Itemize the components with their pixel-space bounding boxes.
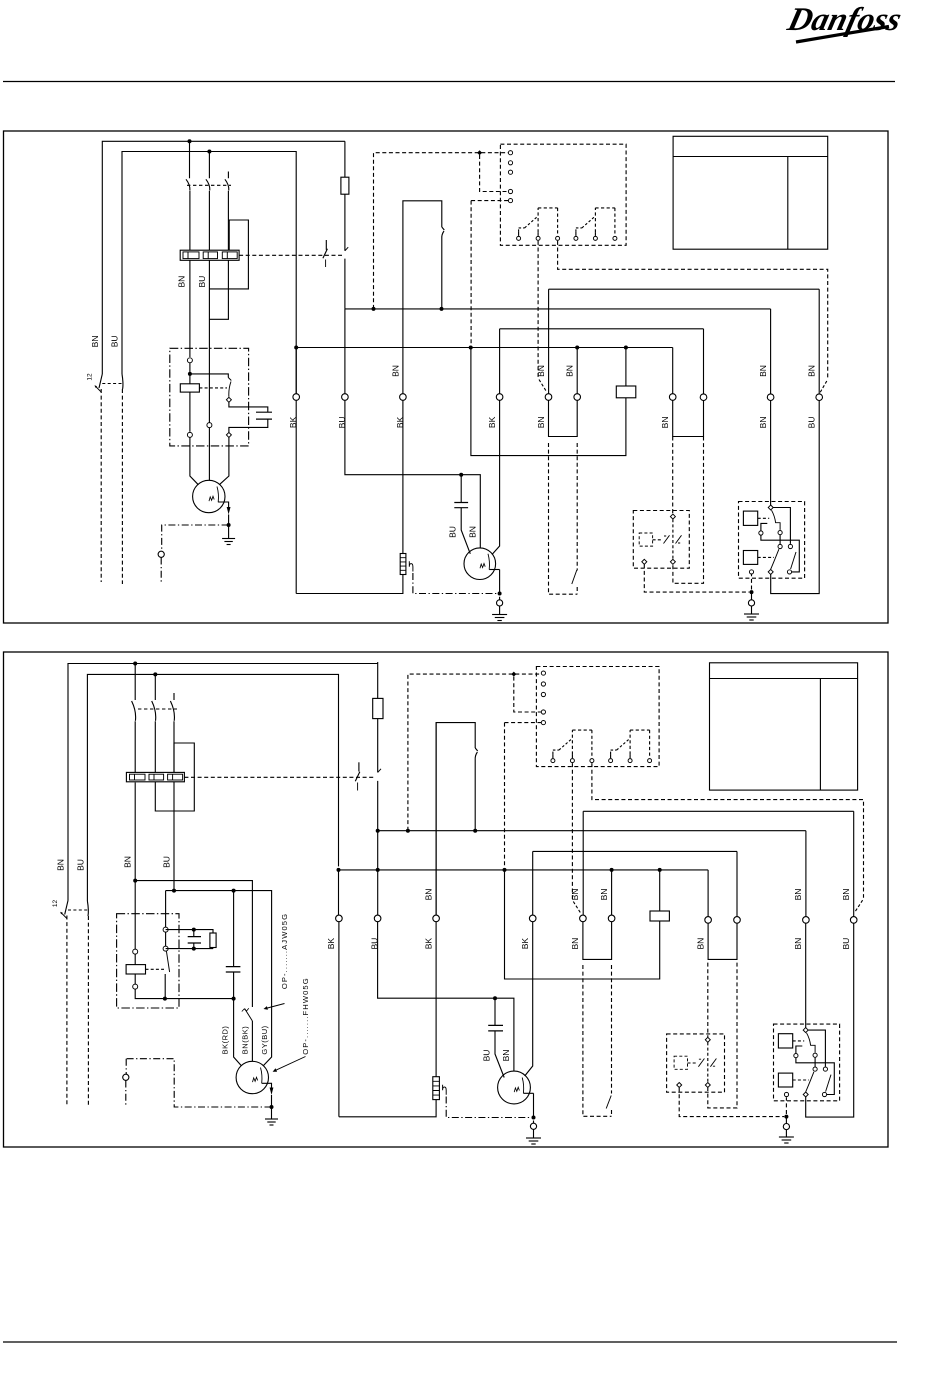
label BU terminal	[337, 416, 347, 428]
dashed ground to relay	[751, 575, 753, 590]
svg-text:BN: BN	[122, 856, 132, 868]
svg-text:BN: BN	[536, 365, 546, 377]
label BU left	[110, 335, 120, 347]
wire M2 to ground node	[499, 570, 501, 594]
wire M3 ground link	[533, 1121, 535, 1139]
motor M1	[193, 480, 225, 512]
header rule	[3, 81, 895, 83]
timer contact group1	[517, 208, 560, 241]
dashed defrost BN drop b	[572, 763, 581, 913]
svg-text:BK: BK	[423, 938, 433, 950]
wire fan pair U b	[708, 923, 737, 959]
terminal BN d2 b	[608, 915, 615, 922]
start relay box b	[117, 914, 179, 1008]
dashed defrost tail1 b	[583, 965, 612, 1116]
Danfoss logo	[783, 1, 905, 42]
overload F1b element3	[168, 774, 183, 780]
terminal BN aux	[816, 394, 823, 401]
terminal aux switch mid	[163, 946, 168, 951]
wire BU in box	[208, 421, 210, 424]
wire M3 to ground node	[533, 1093, 535, 1117]
wire BU below overload	[208, 260, 210, 422]
aux switch blade b	[166, 951, 169, 972]
node cap rail b	[232, 997, 236, 1001]
wire comp feed drop b	[805, 831, 807, 917]
wire resistor up b	[659, 870, 661, 911]
wire N top (BU)	[122, 152, 296, 394]
svg-text:BN: BN	[501, 1050, 511, 1062]
motor M1 arrow	[218, 502, 230, 515]
dash-dot heater to motor M2 ground	[413, 573, 498, 594]
node M1 ground	[227, 523, 231, 527]
bus B horizontal	[296, 347, 673, 349]
node busB2 defrost	[610, 868, 614, 872]
motor M3	[498, 1071, 531, 1104]
wire resistor up	[625, 348, 627, 387]
pressostat wire b	[436, 723, 475, 922]
timer contact group2	[574, 208, 617, 241]
dashed aux to ground b	[679, 1088, 784, 1117]
node bus B feed	[469, 346, 473, 350]
wire BN to coil	[189, 363, 191, 384]
timer pin1 b	[541, 671, 545, 675]
label BN d2 top	[565, 365, 575, 377]
aux terminal top	[670, 514, 675, 519]
svg-text:BN: BN	[841, 889, 851, 901]
node bus A pressostat	[440, 307, 444, 311]
OP switch blade	[242, 1008, 253, 1021]
label BU M3	[481, 1050, 491, 1062]
wire coil down	[189, 392, 191, 432]
footer rule	[3, 1341, 897, 1343]
svg-text:BN: BN	[565, 365, 575, 377]
wire resistor loop b	[505, 870, 660, 979]
wire between terminals b	[165, 932, 167, 946]
label BN pressostat b	[423, 889, 433, 901]
overload F1b body	[126, 772, 184, 781]
node bus B defrost	[575, 346, 579, 350]
wire aux switch drop	[165, 891, 167, 928]
timer pin4 b	[541, 710, 545, 714]
node L1b contactor	[133, 662, 137, 666]
wire C2b top	[494, 998, 496, 1025]
timer contact group1 b	[551, 730, 594, 763]
svg-text:12: 12	[52, 900, 59, 908]
wire M2 ground link	[499, 597, 501, 615]
node busA2 pressostat	[473, 829, 477, 833]
wire fuse drop b	[377, 662, 379, 698]
label BN aux top	[806, 365, 816, 377]
terminal BN comp	[767, 394, 774, 401]
node wire N to bus	[294, 346, 298, 350]
contactor K1 pole3	[225, 172, 229, 251]
timer pin3	[508, 170, 512, 174]
wire fan pair2 up b	[736, 851, 738, 916]
diagram 2 frame	[4, 652, 889, 1147]
wire to start capacitor	[229, 402, 268, 412]
wire fan line	[500, 328, 704, 330]
node comp ground	[750, 590, 754, 594]
compressor relay box b	[774, 1024, 840, 1101]
svg-text:BU: BU	[841, 938, 851, 950]
dashed pin5 drop	[471, 201, 508, 345]
timer pin1	[508, 151, 512, 155]
dashed defrost tail2 b	[611, 965, 613, 1116]
start switch blade	[228, 378, 231, 397]
svg-text:BN: BN	[806, 365, 816, 377]
timer relay box	[500, 144, 626, 245]
switch link dashed b	[68, 909, 87, 911]
node L1/contactor junction	[188, 139, 192, 143]
wire blade to rail b	[164, 974, 166, 999]
label BN d1 top b	[570, 889, 580, 901]
pressostat wire lower	[441, 239, 443, 309]
label BK1 b	[326, 938, 336, 950]
svg-text:BN: BN	[391, 365, 401, 377]
wire fan pair2 up	[703, 329, 705, 394]
svg-text:BN: BN	[570, 938, 580, 950]
compressor relay interior	[743, 505, 799, 574]
label BK fan	[487, 416, 497, 428]
wire defrost line b	[583, 810, 854, 812]
wire BN rail b	[135, 881, 252, 1007]
label BU left b	[76, 859, 86, 871]
run capacitor C2	[454, 503, 468, 508]
contactor K1b pole3	[170, 693, 174, 772]
label BN d1 top	[536, 365, 546, 377]
wire aux BN drop	[818, 289, 820, 394]
wire resistor loop	[471, 348, 626, 456]
label BN fan pair b	[695, 938, 705, 950]
svg-text:BU: BU	[481, 1050, 491, 1062]
aux terminal br	[670, 559, 675, 564]
aux relay interior	[639, 519, 682, 559]
ground M1b	[265, 1107, 278, 1125]
svg-text:BU: BU	[76, 859, 86, 871]
terminal fan pair1	[669, 394, 676, 401]
resistor R2	[616, 386, 636, 398]
start relay coil K2	[180, 384, 199, 392]
svg-text:BN: BN	[758, 365, 768, 377]
wire heater top b	[435, 922, 437, 1077]
timer pin3 b	[541, 692, 545, 696]
label BN d1 bottom b	[570, 938, 580, 950]
svg-text:BN: BN	[536, 416, 546, 428]
node feed diamond b	[511, 672, 516, 677]
compressor relay interior b	[778, 1028, 834, 1097]
ground M3	[526, 1138, 541, 1144]
svg-text:BN(BK): BN(BK)	[241, 1026, 250, 1054]
timer pin2	[508, 161, 512, 165]
svg-text:OP-.......FHW05G: OP-.......FHW05G	[301, 977, 310, 1055]
wire defrost left drop b	[582, 811, 584, 915]
svg-text:BK: BK	[520, 938, 530, 950]
wire fan to motor M2	[492, 400, 500, 554]
node feed diamond	[477, 150, 482, 155]
node Nb contactor	[153, 672, 157, 676]
pressostat blade	[442, 227, 445, 239]
node bus A dashed feed	[372, 307, 376, 311]
terminal fan pair1 b	[705, 917, 712, 924]
label BN M3	[501, 1050, 511, 1062]
label BN(BK)	[241, 1026, 250, 1054]
start resistor R3	[210, 933, 216, 948]
node BU bus b	[376, 868, 380, 872]
aux terminal top b	[705, 1037, 710, 1042]
label BU aux bottom b	[841, 938, 851, 950]
overload trip dashed b	[184, 776, 374, 778]
wire aux BN drop b	[853, 811, 855, 916]
contactor K1b pole2	[152, 674, 156, 772]
node busA2 start	[376, 829, 380, 833]
wire C4 bottom	[233, 972, 235, 999]
terminal comp ground b	[783, 1124, 789, 1130]
compressor relay box	[739, 502, 805, 579]
overload F1b element1	[130, 774, 146, 780]
label BN pressostat	[391, 365, 401, 377]
wire d2 up	[576, 348, 578, 394]
terminal BN box top	[187, 358, 192, 363]
wire coil down b	[134, 974, 136, 984]
wire M1b to ground node	[271, 1095, 273, 1107]
label BN comp top	[758, 365, 768, 377]
dashed ground to relay b	[785, 1097, 787, 1114]
overload F1 element2	[203, 252, 217, 259]
terminal coil bottom	[187, 432, 192, 437]
start relay box	[170, 348, 249, 446]
dash-dot service drop b	[125, 1059, 127, 1075]
node bus B resistor	[624, 346, 628, 350]
label BK(RD)	[220, 1026, 229, 1055]
timer pin2 b	[541, 682, 545, 686]
node run capacitor tap	[459, 473, 463, 477]
wire comp ground link	[751, 592, 753, 614]
terminal start branch bottom	[226, 432, 231, 437]
wire BU rail b	[166, 891, 272, 1066]
wire BN in box b	[134, 783, 136, 950]
svg-text:BN: BN	[660, 416, 670, 428]
timer relay box b	[536, 667, 659, 767]
label BU contactor b	[162, 856, 172, 868]
wire C2 top	[460, 475, 462, 503]
label BN M2	[467, 526, 477, 538]
terminal BK heater b	[433, 915, 440, 922]
label OP-FHW05G	[301, 977, 310, 1055]
wire M1 to ground node	[228, 515, 230, 526]
terminal BN comp b	[803, 917, 810, 924]
terminal BN d2	[574, 394, 581, 401]
label BN left	[90, 335, 100, 347]
svg-text:BN: BN	[423, 889, 433, 901]
dash-dot M1 service	[162, 525, 229, 551]
dashed defrost feed long b	[592, 763, 864, 912]
svg-text:12: 12	[87, 373, 94, 381]
contactor K1b linkage	[138, 708, 177, 710]
svg-text:BU: BU	[448, 526, 458, 538]
dash-dot heater to M3 ground	[446, 1097, 531, 1118]
svg-text:BK: BK	[487, 416, 497, 428]
motor M1b arrow	[262, 1083, 274, 1095]
node RC cap bottom	[192, 947, 196, 951]
wire rail to M1b left	[234, 999, 242, 1066]
node cap rail tap	[232, 889, 236, 893]
RC bottom rail	[166, 948, 213, 949]
terminal coil bottom b	[133, 984, 138, 989]
fuse F2b	[373, 698, 383, 718]
wire fan left drop	[499, 329, 501, 394]
wire C4 top	[233, 891, 235, 967]
label BN aux top b	[841, 889, 851, 901]
node Nb bus	[337, 868, 341, 872]
wire d-pair U b	[583, 922, 612, 960]
wire BU dashed cont b	[87, 916, 89, 1106]
wire box left to M1	[190, 437, 199, 484]
label BK fan b	[520, 938, 530, 950]
bus B2 horizontal	[339, 869, 709, 871]
svg-text:BU: BU	[162, 856, 172, 868]
arrow 12 annotation b	[52, 900, 67, 919]
node BU rail tap	[172, 889, 176, 893]
legend table 1	[673, 136, 828, 249]
terminal BU	[342, 394, 349, 401]
terminal BN d1	[545, 394, 552, 401]
label BN left b	[56, 859, 66, 871]
motor M2	[464, 548, 496, 580]
label BU aux bottom	[806, 416, 816, 428]
terminal BK fan	[496, 394, 503, 401]
coil link dashed	[199, 387, 227, 389]
arrow OP-AJW05G	[264, 1004, 285, 1010]
label BN d2 top b	[599, 889, 609, 901]
wire BN to coil b	[134, 954, 136, 965]
motor M1b	[236, 1061, 268, 1093]
terminal comp ground	[748, 600, 754, 606]
overload trip dashed	[239, 254, 342, 256]
ground comp	[744, 614, 759, 620]
node busB2 feed	[503, 868, 507, 872]
wire fan pair U	[673, 400, 704, 436]
wire bottom U heater	[296, 575, 403, 594]
terminal BK1	[293, 394, 300, 401]
dashed pin5 drop b	[505, 723, 542, 868]
terminal M2 ground	[497, 600, 503, 606]
RC top rail	[166, 930, 213, 933]
wire BK1 down b	[338, 870, 340, 1117]
wire comp to relay b	[805, 923, 807, 1027]
pressostat wire	[403, 201, 442, 401]
wire coil to rail b	[135, 989, 233, 999]
svg-text:GY(BU): GY(BU)	[260, 1025, 269, 1054]
terminal BK fan b	[529, 915, 536, 922]
contactor K1 pole1	[186, 141, 190, 250]
dashed defrost BN drop	[538, 241, 547, 392]
wire step pole3	[209, 260, 228, 319]
dashed defrost tail1	[549, 443, 578, 594]
aux relay box b	[667, 1034, 725, 1092]
wire fan pair1 up b	[707, 870, 709, 917]
terminal M3 ground	[530, 1123, 536, 1129]
ground M2	[492, 615, 507, 621]
wire d-pair U	[549, 400, 578, 436]
svg-text:BK: BK	[326, 938, 336, 950]
label BU contactor	[197, 276, 207, 288]
contactor K1b pole1	[132, 664, 136, 773]
diagram 1 frame	[4, 131, 889, 623]
motor M2 arrow	[489, 569, 499, 571]
start relay coil K2b	[126, 965, 145, 974]
trip fuse gap	[344, 194, 346, 309]
dashed fanpair2 to aux	[673, 437, 704, 584]
node BN switch tap	[188, 372, 192, 376]
overload F1 body	[180, 250, 239, 260]
legend table 2	[710, 663, 858, 790]
wire BU to motor M3	[378, 922, 514, 1071]
dash-dot M1b service	[126, 1059, 271, 1107]
wire BK1 down	[295, 348, 297, 594]
wire capacitor return	[229, 419, 268, 432]
run capacitor C2b	[488, 1025, 503, 1031]
svg-text:BN: BN	[177, 276, 187, 288]
wire loop pole2	[209, 220, 248, 289]
timer pin4	[508, 189, 512, 193]
overload F1 element3	[222, 252, 237, 259]
bus A2 horizontal	[378, 830, 806, 832]
label BN comp bottom b	[793, 938, 803, 950]
terminal BU b	[374, 915, 381, 922]
wire BU to motor M2	[345, 400, 480, 547]
svg-text:BK(RD): BK(RD)	[220, 1026, 229, 1055]
pressostat wire lower b	[474, 760, 476, 831]
svg-text:BU: BU	[197, 276, 207, 288]
svg-text:BN: BN	[570, 889, 580, 901]
heater element R1	[400, 554, 406, 575]
label BK heater terminal	[395, 416, 405, 428]
switch S2b blade	[87, 901, 88, 916]
wire box right to M1	[219, 437, 229, 484]
trip fuse gap b	[377, 719, 379, 831]
dashed fanpair1 to aux	[672, 437, 674, 515]
RC cap stubs	[193, 930, 195, 949]
wire BU dashed continuation	[121, 389, 123, 584]
dashed aux to ground	[644, 564, 749, 592]
wire BU below overload b	[173, 782, 175, 891]
timer contact group2 b	[609, 730, 652, 763]
defrost tail switch	[572, 570, 577, 584]
terminal fan pair2 b	[734, 917, 741, 924]
wire fuse to bus A2	[0, 0, 1, 1]
wire defrost left drop	[548, 289, 550, 393]
wire loop pole2 b	[155, 743, 194, 811]
RC capacitor C3	[188, 937, 201, 943]
svg-text:OP-.......AJW05G: OP-.......AJW05G	[280, 913, 289, 989]
wire comp to relay	[770, 401, 772, 505]
wire comp feed drop	[770, 309, 772, 394]
dashed feed riser b	[408, 674, 541, 831]
wire C2b bottom to M3	[495, 1031, 504, 1078]
wire bottom U heater b	[339, 1100, 436, 1117]
wire defrost line	[549, 288, 820, 290]
dashed fanpair1 to aux b	[707, 963, 709, 1038]
wire L1 top (BN)	[102, 141, 345, 374]
label BU terminal b	[370, 938, 380, 950]
heater sensor hook b	[443, 1085, 447, 1095]
dashed feed to pin4 b	[514, 677, 541, 712]
motor M3 arrow	[523, 1092, 533, 1094]
svg-text:BN: BN	[758, 416, 768, 428]
timer pin5 b	[541, 721, 545, 725]
start capacitor C1	[256, 412, 272, 419]
dashed defrost tail2	[576, 443, 578, 594]
